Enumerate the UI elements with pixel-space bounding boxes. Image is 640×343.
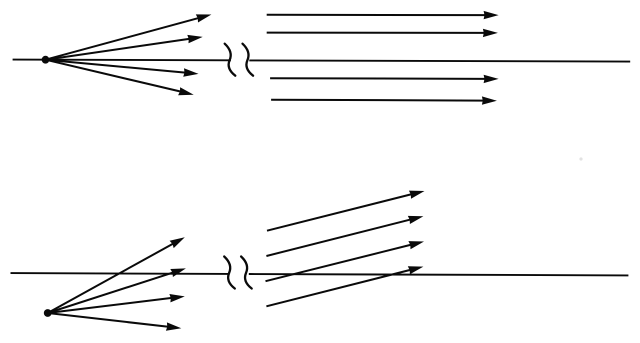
bottom diverging ray 2: [48, 268, 186, 313]
top diverging ray 4 (steep down): [46, 60, 194, 96]
top diverging ray 3 (shallow down): [46, 60, 199, 77]
top diverging ray 1 (steep up): [46, 14, 212, 59]
top parallel ray 3: [270, 75, 499, 83]
bottom parallel inclined ray 3: [266, 241, 425, 281]
bottom diverging ray 4 (slightly down): [48, 313, 182, 331]
bottom break mark, left squiggle: [224, 257, 235, 289]
bottom optical axis, left segment: [11, 272, 230, 275]
top parallel ray 4: [271, 96, 497, 104]
bottom point source dot (below axis): [44, 309, 52, 317]
top parallel ray 2: [267, 29, 498, 37]
bottom break mark, right squiggle: [241, 257, 252, 289]
bottom diverging ray 1 (steep up): [48, 237, 185, 313]
top point source dot: [42, 56, 50, 64]
top optical axis, left segment: [13, 59, 231, 62]
bottom parallel inclined ray 1: [267, 191, 425, 231]
bottom parallel inclined ray 2: [266, 216, 423, 256]
top break mark, right squiggle: [243, 44, 254, 76]
top diverging ray 2 (shallow up): [46, 35, 203, 60]
bottom diverging ray 3: [48, 294, 185, 313]
bottom optical axis, right segment (after break): [249, 274, 629, 275]
top parallel ray 1: [267, 11, 499, 19]
bottom parallel inclined ray 4: [266, 266, 423, 306]
top break mark, left squiggle: [225, 44, 236, 76]
faint scan speck: [579, 157, 582, 160]
top optical axis, right segment (after break): [249, 60, 630, 61]
